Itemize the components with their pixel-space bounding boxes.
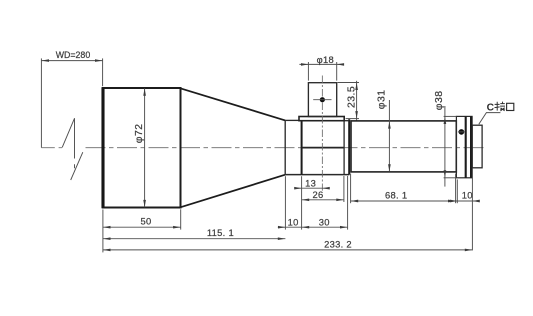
optical axis centerline [41,147,486,149]
svg-text:13: 13 [305,178,316,189]
block center dot [320,97,325,102]
cone taper bottom [181,175,286,208]
dimension 115.1 [103,238,286,240]
label C-mount leader [479,113,501,125]
block centerline [321,76,323,191]
svg-text:10: 10 [288,216,299,227]
phi18 block [308,83,336,117]
ring dot [459,129,465,135]
dimension 10 neck [278,226,286,228]
svg-text:C: C [487,102,495,113]
phi31 barrel [351,121,456,172]
label C-mount : kou glyph [507,103,514,110]
break symbol [62,118,83,180]
dimension 233.2 [103,249,473,251]
mid section top edge right of plate [344,120,349,122]
svg-text:26: 26 [312,189,323,200]
dimension 50 [103,226,181,228]
mid section right face [348,119,350,174]
mid section seam line [302,147,345,149]
neck top edge [285,119,299,121]
svg-text:30: 30 [319,216,330,227]
label C-mount : jie glyph [495,102,506,111]
ring groove line 2 / right edge [470,116,472,177]
svg-text:10: 10 [462,189,473,200]
dimension 26 [302,199,344,201]
extension lines bottom [103,169,473,252]
svg-text:68. 1: 68. 1 [385,189,407,200]
ring dot tick [458,131,465,133]
mid section left face [301,121,303,175]
ring groove line 1 [465,116,467,177]
svg-text:φ18: φ18 [317,54,334,65]
dimension phi72 [144,88,146,207]
front barrel body [103,88,181,208]
svg-text:233. 2: 233. 2 [324,238,352,249]
front face thick edge [101,87,104,208]
dimension phi38 [444,106,457,187]
C-mount flange [472,125,482,168]
cone taper top [181,88,286,120]
dimension 13 [295,187,329,189]
dimension 23.5 [338,81,359,121]
svg-text:φ38: φ38 [434,91,445,111]
neck / mid-section bottom edge [285,174,349,176]
block dot crosshair [313,99,331,101]
dimension WD=280 [41,58,102,147]
dimension 68.1 [351,200,456,202]
svg-text:115. 1: 115. 1 [207,227,234,238]
dimension phi31 [388,100,390,172]
dimension 30 [285,226,347,228]
svg-text:23.5: 23.5 [346,86,357,108]
svg-text:φ72: φ72 [134,124,145,144]
phi38 ring body [456,116,472,177]
dimension phi18 [299,62,343,81]
cone end face [284,120,286,174]
svg-text:WD=280: WD=280 [56,50,91,60]
svg-text:φ31: φ31 [376,90,387,110]
top plate [299,117,344,121]
mid section inner step line [343,121,345,175]
svg-text:50: 50 [140,216,151,227]
dimension 10 right [451,200,479,202]
